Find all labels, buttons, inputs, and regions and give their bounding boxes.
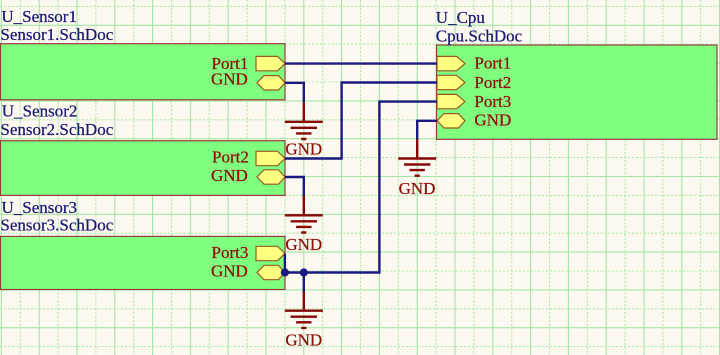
- svg-text:GND: GND: [285, 235, 322, 254]
- svg-text:GND: GND: [211, 166, 248, 185]
- svg-text:U_Cpu: U_Cpu: [436, 8, 486, 27]
- svg-text:GND: GND: [285, 140, 322, 159]
- svg-text:Sensor1.SchDoc: Sensor1.SchDoc: [0, 25, 113, 44]
- svg-text:GND: GND: [211, 70, 248, 89]
- svg-text:U_Sensor1: U_Sensor1: [1, 7, 77, 26]
- svg-text:Cpu.SchDoc: Cpu.SchDoc: [436, 26, 523, 45]
- svg-text:Port1: Port1: [474, 54, 511, 73]
- svg-text:GND: GND: [211, 261, 248, 280]
- svg-text:GND: GND: [285, 331, 322, 350]
- svg-text:Port3: Port3: [212, 243, 249, 262]
- svg-text:U_Sensor3: U_Sensor3: [2, 198, 78, 217]
- svg-text:Sensor2.SchDoc: Sensor2.SchDoc: [0, 120, 113, 139]
- svg-text:Sensor3.SchDoc: Sensor3.SchDoc: [0, 216, 113, 235]
- svg-text:Port2: Port2: [474, 73, 511, 92]
- svg-text:GND: GND: [399, 179, 436, 198]
- svg-text:U_Sensor2: U_Sensor2: [2, 102, 78, 121]
- svg-text:GND: GND: [474, 111, 511, 130]
- svg-text:Port2: Port2: [212, 147, 249, 166]
- svg-text:Port3: Port3: [474, 92, 511, 111]
